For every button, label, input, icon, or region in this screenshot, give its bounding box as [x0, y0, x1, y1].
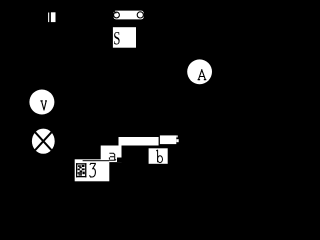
svg-text:S: S	[113, 29, 120, 50]
